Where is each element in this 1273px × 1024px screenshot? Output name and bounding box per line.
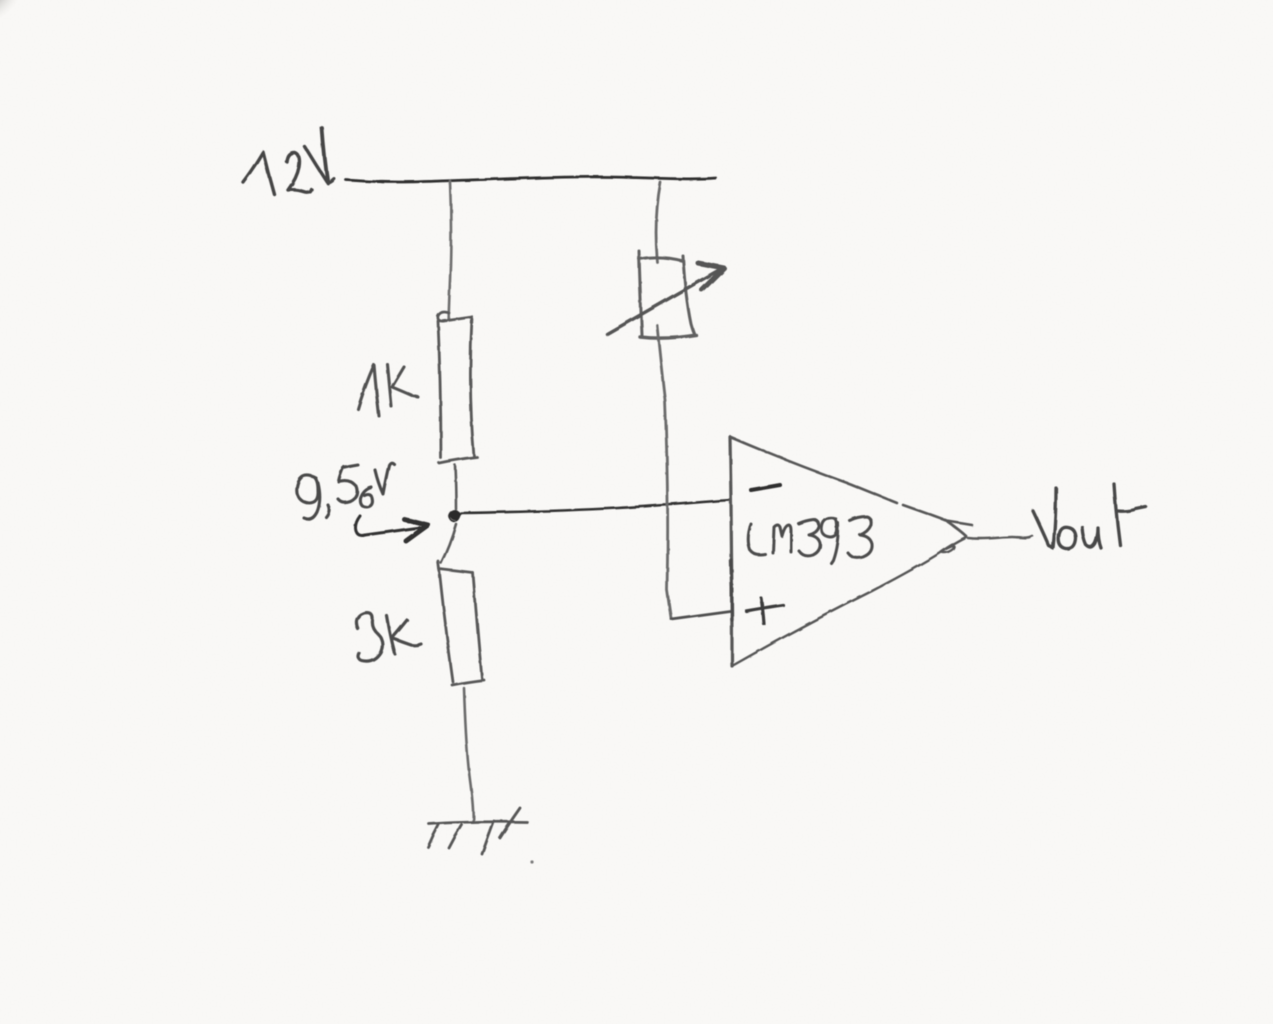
annotation arrow to node A	[356, 516, 429, 541]
op-amp U1 triangle	[730, 437, 972, 666]
resistor R2 3k body	[438, 561, 484, 685]
arrow through variable resistor	[607, 263, 724, 334]
scan smudge top-left corner	[0, 0, 24, 25]
wire: rail to R1	[449, 181, 451, 320]
variable resistor R3 body	[639, 251, 696, 338]
wire: R2 to ground	[464, 688, 473, 822]
non-inverting input symbol	[746, 598, 783, 624]
ground	[428, 808, 527, 854]
wire: rail to variable resistor	[656, 182, 660, 262]
wire: variable resistor down	[657, 325, 671, 618]
wire: node A to inverting input	[461, 500, 730, 513]
inverting input symbol	[751, 485, 780, 490]
op-amp label LM393	[748, 517, 872, 563]
wire: bend to non-inverting input	[671, 611, 730, 619]
stray pencil dot	[530, 860, 533, 863]
resistor R1 1K body	[438, 312, 477, 463]
value label 1K	[358, 364, 418, 416]
wire: +12V rail	[346, 177, 716, 182]
wire: R1 to node A	[455, 465, 456, 509]
net label 12V	[243, 128, 334, 194]
wire: output to Vout	[968, 536, 1032, 539]
wire: node A to R2	[441, 524, 456, 563]
node A junction dot	[449, 511, 460, 522]
net label Vout	[1033, 484, 1146, 549]
value label 3k	[356, 613, 421, 662]
voltage label 9,56V	[297, 463, 394, 519]
